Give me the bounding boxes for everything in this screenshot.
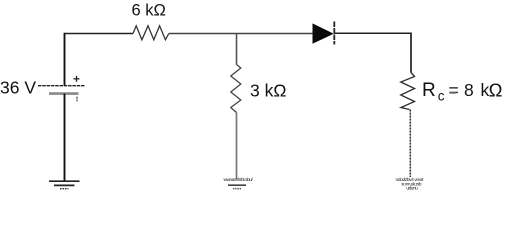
wire middle vertical (bottom) <box>236 113 238 180</box>
svg-text:uzbznu: uzbznu <box>406 185 418 190</box>
ground G2 bar3 <box>233 188 241 190</box>
ground G2 bar2 <box>228 184 246 186</box>
svg-text:36 V: 36 V <box>0 78 36 98</box>
svg-text:c: c <box>438 89 445 104</box>
diode D1 cathode bar <box>333 22 335 45</box>
svg-text:8: 8 <box>464 80 474 100</box>
wire middle vertical (top) <box>236 34 238 65</box>
svg-text:6 kΩ: 6 kΩ <box>132 2 166 20</box>
resistor R2 3k zigzag <box>231 65 241 113</box>
battery V1 minus tick <box>76 97 78 101</box>
svg-text:wwnasvhrbt sbu/: wwnasvhrbt sbu/ <box>224 177 254 182</box>
wire R1 to junction A <box>169 33 237 35</box>
ground G1 bar3 <box>60 188 69 190</box>
ground G1 bar1 <box>49 180 80 182</box>
wire left vertical (top) <box>64 33 66 86</box>
resistor R1 6k zigzag <box>133 26 169 40</box>
wire right vertical (top) <box>410 33 412 73</box>
wire junction A to diode anode <box>237 33 314 35</box>
wire left vertical (bottom) <box>64 94 66 181</box>
svg-text:R: R <box>422 80 436 101</box>
svg-text:Ω: Ω <box>489 79 503 100</box>
svg-text:3 kΩ: 3 kΩ <box>250 81 286 101</box>
resistor RL 8k zigzag <box>401 73 415 110</box>
svg-text:=: = <box>449 80 459 100</box>
battery V1 plus sign <box>76 76 78 82</box>
battery V1 top plate <box>38 85 85 87</box>
wire top-left horizontal <box>65 33 134 35</box>
diode D1 triangle <box>313 24 333 43</box>
battery V1 bottom plate <box>49 92 79 95</box>
ground G1 bar2 <box>54 184 75 186</box>
wire diode to top-right corner <box>334 32 411 34</box>
wire right vertical (bottom) <box>409 110 411 178</box>
